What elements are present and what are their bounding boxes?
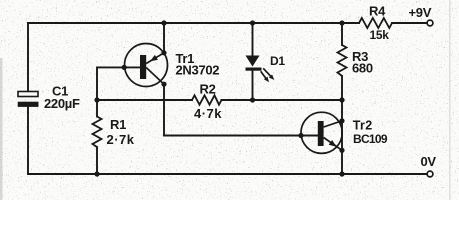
svg-text:D1: D1 — [270, 54, 285, 68]
node bottom rail / R1 — [94, 171, 99, 176]
wire node C down Tr2 collector/emitter to 0V rail — [341, 100, 343, 174]
node Tr2 emitter — [339, 148, 344, 153]
wire node A to R2 left — [97, 99, 192, 101]
node top rail / R3 R4 — [339, 20, 344, 25]
transistor Tr1 (2N3702, PNP) — [125, 44, 168, 87]
wire R3 bottom to node C — [341, 76, 343, 100]
terminal 0V — [427, 171, 433, 177]
svg-text:BC109: BC109 — [353, 132, 388, 146]
wire R3 top to rail — [341, 23, 343, 45]
wire R4 to +9V terminal — [392, 22, 427, 24]
node Tr1 emitter — [161, 50, 166, 55]
terminal +9V — [427, 20, 433, 26]
wire node A to R1 top — [96, 100, 98, 117]
transistor Tr2 (BC109, NPN) — [301, 112, 342, 153]
svg-text:+9V: +9V — [409, 5, 432, 20]
wire R1 bottom to 0V rail — [96, 147, 98, 174]
LED D1 — [246, 56, 275, 83]
svg-text:2N3702: 2N3702 — [176, 63, 220, 78]
svg-text:4·7k: 4·7k — [194, 106, 222, 121]
wire left vertical lower (C1 to 0V rail) — [27, 107, 29, 174]
svg-text:2·7k: 2·7k — [107, 132, 135, 147]
svg-text:0V: 0V — [421, 154, 437, 169]
node Tr2 base at circle edge — [298, 133, 303, 138]
wire D1 anode to top rail — [252, 23, 254, 56]
wire Tr1 collector to Tr2 base — [164, 84, 318, 135]
wire bottom rail — [28, 173, 427, 175]
wire Tr1 emitter to top rail — [163, 23, 165, 53]
svg-text:680: 680 — [352, 61, 373, 76]
svg-text:R1: R1 — [110, 117, 126, 132]
resistor R3 — [338, 45, 347, 76]
svg-text:220µF: 220µF — [44, 96, 80, 111]
node top rail / D1 anode — [250, 20, 255, 25]
node bottom rail / Tr2 emitter — [339, 171, 344, 176]
resistor R2 — [192, 95, 222, 104]
svg-text:Tr2: Tr2 — [353, 118, 373, 132]
wire D1 cathode to node C — [252, 71, 254, 100]
svg-text:R2: R2 — [200, 82, 216, 97]
wire Tr1 base to node A — [97, 67, 140, 100]
node A (Tr1 base, R1, R2) — [94, 97, 99, 102]
wire top rail — [28, 22, 359, 24]
resistor R1 — [93, 117, 102, 148]
resistor R4 — [359, 18, 392, 28]
svg-text:R4: R4 — [369, 4, 386, 19]
capacitor C1 — [18, 92, 39, 107]
node Tr1 collector — [161, 82, 166, 87]
node C (D1 cathode on R2 line) — [250, 97, 255, 102]
node Tr1 base at circle edge — [122, 65, 127, 70]
wire left vertical upper (rail to C1) — [27, 23, 29, 92]
svg-text:15k: 15k — [370, 28, 390, 42]
node C (R2 right, R3 bottom) — [339, 97, 344, 102]
node Tr2 collector — [339, 118, 344, 123]
node top rail / Tr1 emitter — [161, 20, 166, 25]
wire R2 right to node C — [222, 99, 343, 101]
